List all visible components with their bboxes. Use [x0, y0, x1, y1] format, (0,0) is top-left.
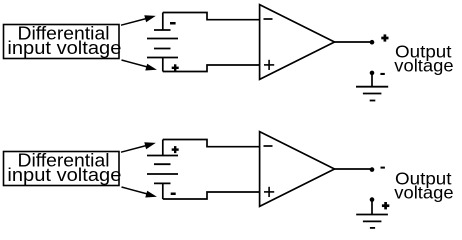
svg-text:voltage: voltage [394, 55, 453, 75]
svg-text:input voltage: input voltage [7, 165, 121, 185]
svg-text:voltage: voltage [394, 182, 453, 202]
svg-text:input voltage: input voltage [7, 38, 121, 58]
